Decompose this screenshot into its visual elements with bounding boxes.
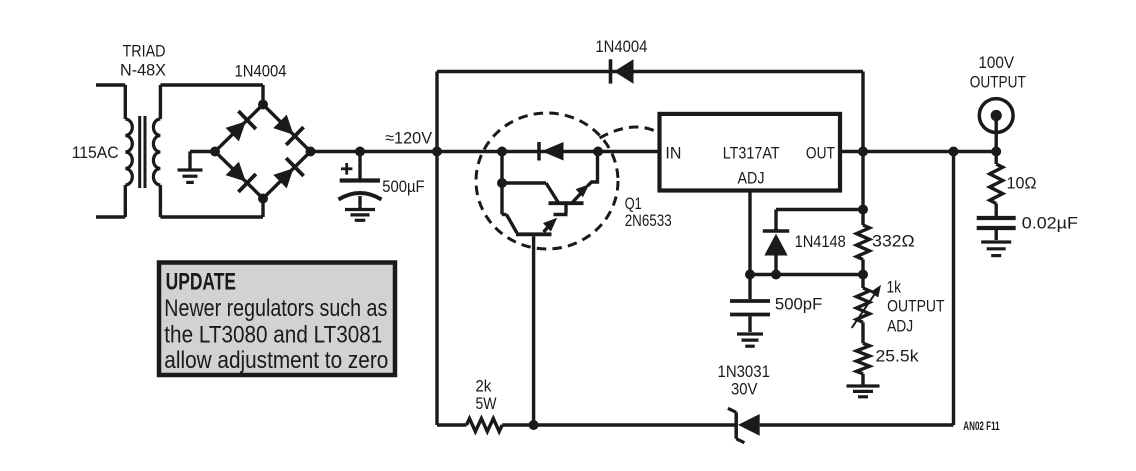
pin label ADJ — [738, 168, 765, 187]
svg-text:115AC: 115AC — [72, 143, 119, 162]
capacitor C1 500uF plus sign — [341, 163, 352, 175]
transformer T1 primary winding — [125, 119, 132, 185]
svg-text:OUT: OUT — [806, 143, 835, 162]
wire top rail — [437, 70, 863, 73]
svg-text:2k: 2k — [475, 377, 491, 396]
wire right vertical to bottom — [952, 152, 955, 426]
pot arrow — [852, 285, 881, 328]
label OUTPUT top — [970, 72, 1026, 91]
wire bottom rail mid — [502, 423, 736, 426]
node Q1 base — [497, 178, 507, 188]
svg-text:≈120V: ≈120V — [385, 129, 433, 148]
svg-text:500µF: 500µF — [382, 177, 424, 196]
svg-text:TRIAD: TRIAD — [123, 42, 166, 61]
node 4148-332 top — [858, 205, 868, 215]
wire 25k bottom — [861, 374, 864, 385]
transformer T1 secondary winding — [153, 119, 160, 185]
label 1N3031 — [718, 362, 770, 381]
node bridge left — [210, 147, 220, 157]
wire bottom rail right — [760, 423, 954, 426]
node bridge right — [306, 147, 316, 157]
transistor Q1 bottom bar — [516, 232, 552, 236]
transformer T1 secondary leads — [159, 85, 162, 217]
update title — [166, 269, 236, 296]
svg-text:1N4004: 1N4004 — [235, 62, 287, 81]
ground 25k — [847, 386, 880, 397]
node adj row mid — [771, 270, 781, 280]
svg-text:ADJ: ADJ — [738, 168, 765, 187]
label 5W — [476, 394, 497, 413]
diode bridge top-left (left node to top) — [226, 111, 256, 141]
svg-text:Newer regulators such as: Newer regulators such as — [164, 295, 387, 322]
wire secondary top to bridge — [160, 85, 263, 106]
pin label IN — [665, 143, 681, 162]
svg-text:332Ω: 332Ω — [872, 232, 914, 251]
wire Q1 base drop — [500, 152, 503, 215]
label 1N4004 bridge — [235, 62, 287, 81]
svg-text:IN: IN — [665, 143, 681, 162]
svg-text:25.5k: 25.5k — [876, 347, 920, 366]
terminal 100V output — [979, 99, 1013, 133]
svg-text:100V: 100V — [978, 53, 1014, 72]
bridge rectifier frame — [215, 105, 311, 199]
resistor R2 332 — [857, 225, 870, 260]
label 115AC — [72, 143, 119, 162]
transformer T1 primary leads — [96, 85, 125, 217]
node cap 500uF tap — [355, 147, 365, 157]
wire bottom rail left — [437, 423, 467, 426]
diode bridge bottom-right (bottom to right node) — [273, 158, 303, 188]
svg-text:1N4148: 1N4148 — [795, 232, 846, 251]
ground snubber — [981, 242, 1011, 256]
wire Q1 collector path — [502, 215, 517, 234]
svg-text:OUTPUT: OUTPUT — [970, 72, 1026, 91]
transformer T1 core — [140, 116, 145, 188]
label 332ohm — [872, 232, 914, 251]
diode D2 1N4148 — [763, 231, 789, 275]
svg-text:Q1: Q1 — [625, 194, 642, 213]
ground C2 — [737, 334, 763, 346]
update line2 — [164, 295, 387, 322]
node bridge top — [258, 100, 268, 110]
svg-text:500pF: 500pF — [775, 295, 822, 314]
pin label OUT — [806, 143, 835, 162]
wire to R-snub — [995, 152, 998, 165]
label 1k — [887, 277, 902, 296]
svg-text:0.02µF: 0.02µF — [1022, 214, 1078, 233]
transistor Q1 upper emitter — [571, 152, 598, 205]
update line3 — [164, 322, 382, 349]
ground C1 — [345, 210, 375, 221]
diode D6 internal — [539, 142, 564, 161]
label approx 120V — [385, 129, 433, 148]
ground bridge — [178, 170, 203, 182]
wire secondary bottom to bridge — [160, 197, 263, 217]
svg-text:ADJ: ADJ — [887, 317, 913, 336]
svg-text:2N6533: 2N6533 — [625, 211, 672, 230]
transistor Q1 lower base bar — [554, 213, 568, 217]
update line4 — [164, 347, 388, 374]
label 10ohm — [1007, 174, 1037, 193]
svg-text:OUTPUT: OUTPUT — [887, 297, 944, 316]
capacitor C1 500uF — [339, 181, 382, 209]
label 2k — [475, 377, 491, 396]
transistor Q1 upper base bar — [549, 201, 584, 205]
label 2N6533 — [625, 211, 672, 230]
wire 1N4148 top stub — [774, 210, 777, 230]
label 25.5k — [876, 347, 920, 366]
wire Q1 base to bar — [502, 183, 558, 202]
label N-48X — [120, 61, 166, 80]
resistor R4 25.5k — [856, 343, 869, 374]
label AN02 F11 — [963, 421, 1000, 433]
capacitor C2 500pF — [730, 301, 770, 332]
update note box — [159, 263, 395, 376]
wire out rail — [839, 150, 996, 153]
svg-text:the LT3080 and LT3081: the LT3080 and LT3081 — [164, 322, 382, 349]
label 1N4004 top — [595, 37, 647, 56]
wire R to C — [995, 204, 998, 217]
wire 332 bottom — [861, 260, 864, 275]
diode D5 1N4004 top — [611, 59, 634, 83]
dashed package circle Q1 — [476, 113, 618, 249]
resistor 10R — [990, 164, 1003, 204]
transistor Q1 lower emitter — [543, 218, 557, 232]
wire to C1 — [358, 152, 361, 179]
svg-text:30V: 30V — [731, 380, 758, 399]
node bottom emitter — [529, 420, 539, 430]
svg-text:UPDATE: UPDATE — [166, 269, 236, 296]
label 1N4148 — [795, 232, 846, 251]
wire main rail 120V — [311, 150, 660, 153]
wire 4148 to 332 — [776, 208, 863, 211]
svg-text:allow adjustment to zero: allow adjustment to zero — [164, 347, 388, 374]
label 500uF — [382, 177, 424, 196]
regulator U1 LT317AT box — [660, 114, 841, 191]
label LT317AT — [723, 143, 780, 162]
zener D3 1N3031 — [728, 408, 760, 442]
label ADJ adj — [887, 317, 913, 336]
label 30V — [731, 380, 758, 399]
potentiometer R3 1k — [856, 288, 869, 322]
node out-topfeedback — [858, 147, 868, 157]
svg-text:10Ω: 10Ω — [1007, 174, 1037, 193]
node Q1 left — [497, 147, 507, 157]
node out-bottom branch — [949, 147, 959, 157]
node out-terminal — [991, 147, 1001, 157]
wire Q1 emitter down — [532, 236, 535, 425]
capacitor 0.02uF — [977, 218, 1016, 240]
transistor Q1 interstage — [564, 204, 567, 213]
node Q1 right — [593, 147, 603, 157]
label 500pF — [775, 295, 822, 314]
wire adj node row — [750, 273, 863, 276]
svg-text:1N4004: 1N4004 — [595, 37, 647, 56]
wire pot top — [861, 275, 864, 289]
wire to C2 — [748, 275, 751, 300]
label 100V — [978, 53, 1014, 72]
wire terminal — [995, 116, 998, 152]
wire left vertical — [435, 72, 438, 426]
svg-text:1k: 1k — [887, 277, 902, 296]
label OUTPUT adj — [887, 297, 944, 316]
label Q1 — [625, 194, 642, 213]
dashed arc to regulator — [600, 127, 659, 138]
label TRIAD — [123, 42, 166, 61]
node left vertical main rail — [432, 147, 442, 157]
node bridge bottom — [258, 194, 268, 204]
wire right top vertical — [861, 72, 864, 226]
svg-text:LT317AT: LT317AT — [723, 143, 780, 162]
node adj row right — [858, 270, 868, 280]
label 0.02uF — [1022, 214, 1078, 233]
svg-text:AN02 F11: AN02 F11 — [963, 421, 1000, 433]
svg-text:1N3031: 1N3031 — [718, 362, 770, 381]
svg-text:5W: 5W — [476, 394, 497, 413]
node adj row left — [745, 270, 755, 280]
wire bridge left to ground — [190, 152, 215, 170]
diode bridge top-right (top to right node) — [273, 115, 303, 145]
wire pot to 25k — [861, 322, 864, 343]
svg-text:N-48X: N-48X — [120, 61, 166, 80]
resistor R1 2k 5W — [467, 419, 503, 432]
diode bridge bottom-left (left node to bottom) — [226, 162, 256, 192]
wire ADJ pin — [748, 191, 751, 275]
